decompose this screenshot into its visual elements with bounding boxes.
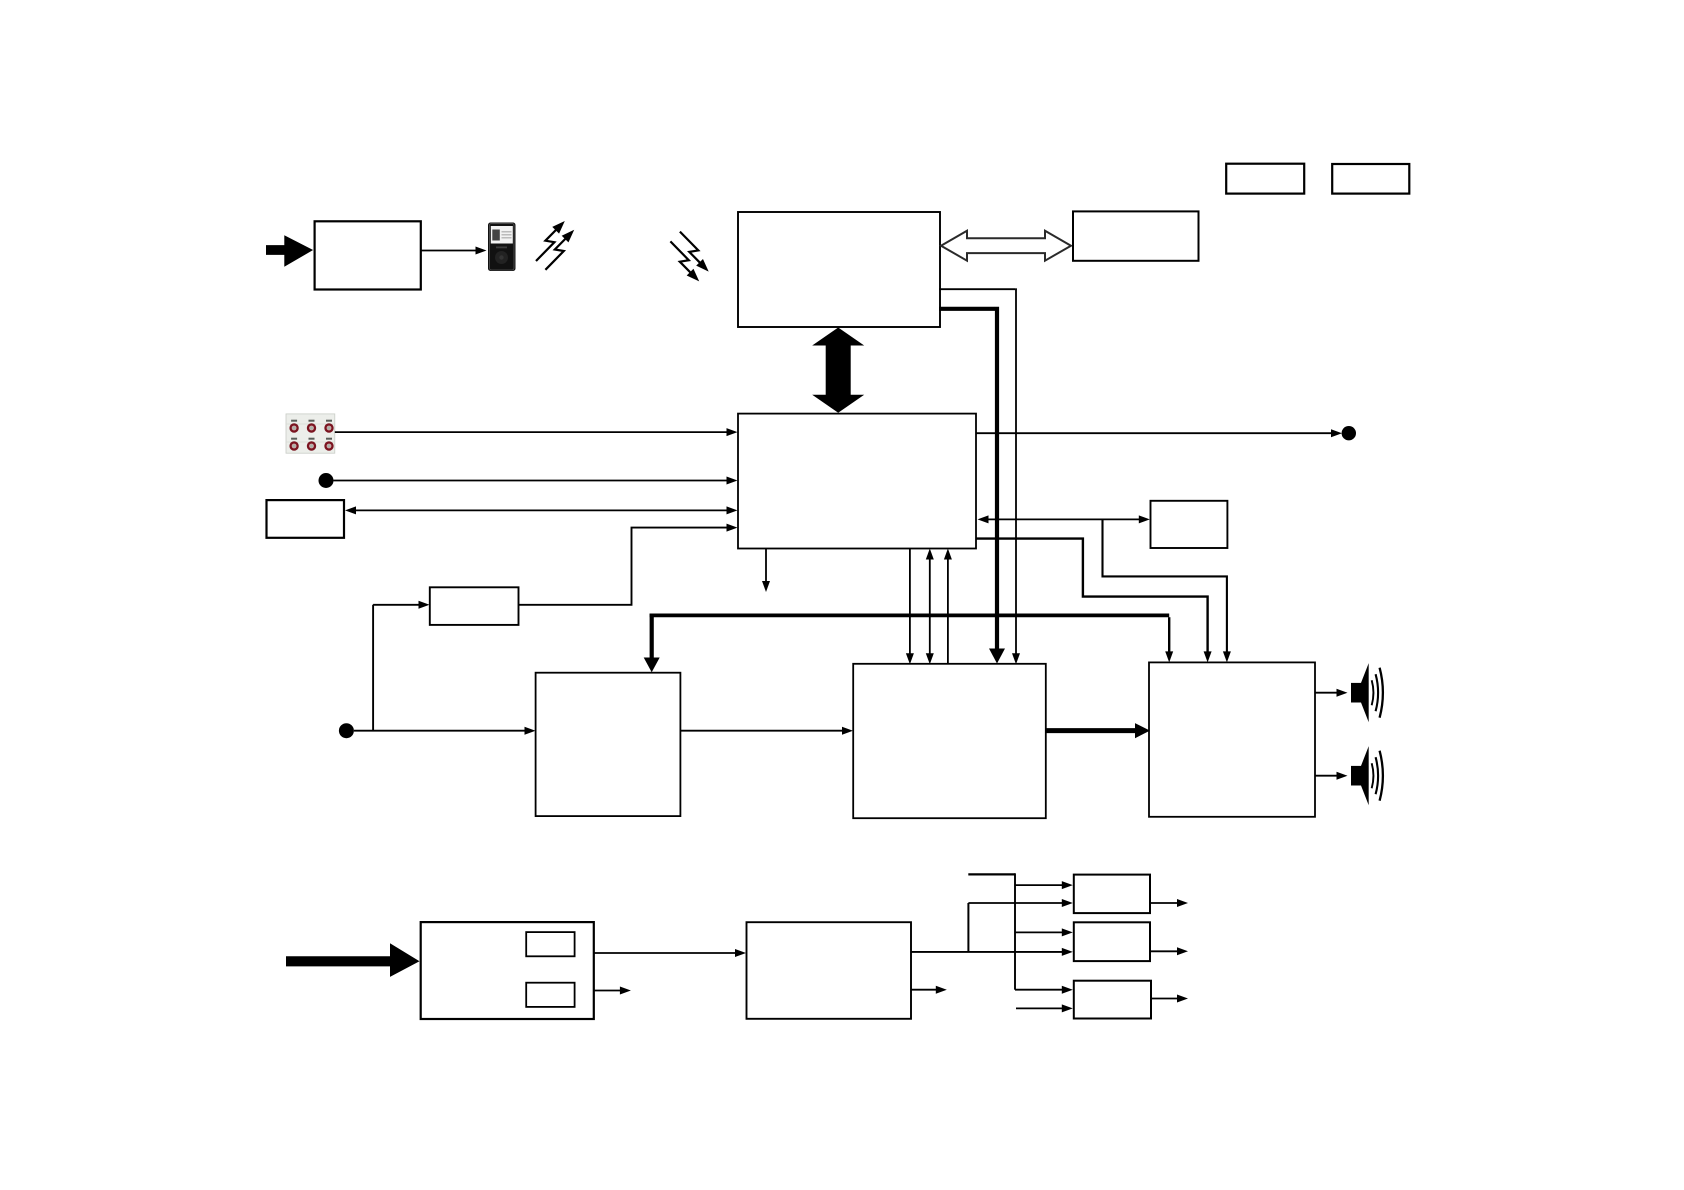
wire: branch up from aux line to pre-amp xyxy=(373,601,429,731)
RF receive lightning bolt 2 xyxy=(670,241,699,281)
wire: receiver data line (thin, right edge down to audio processor) xyxy=(939,288,1020,664)
block: transmitter encoder (top-left, empty) xyxy=(315,221,421,289)
arrow: microcontroller short output stub (down) xyxy=(762,549,770,593)
wire: microcontroller to display (double arrowheads) xyxy=(345,506,738,514)
node: aux audio input (filled dot, bottom left) xyxy=(339,723,354,738)
wire: distribution stub rail (free end) feeding regulators xyxy=(968,873,1015,989)
wire: DSP to audio processor xyxy=(680,727,853,735)
block: audio processor (bottom middle, empty) xyxy=(853,664,1046,818)
wire: rail to block A input xyxy=(1015,881,1073,889)
RF receive lightning bolt 1 xyxy=(680,232,709,272)
block: power supply unit (bottom, empty) xyxy=(421,922,594,1019)
speaker icon: left channel xyxy=(1351,663,1383,722)
open double-headed arrow between receiver and memory block xyxy=(941,231,1071,261)
node: microphone (filled dot, left) xyxy=(319,473,334,488)
wire: power amp to left speaker xyxy=(1315,689,1348,697)
block: regulator output B (empty) xyxy=(1074,922,1150,961)
arrow: block B output xyxy=(1150,947,1188,955)
wire: bidirectional line between MCU and EEPROM xyxy=(978,515,1150,523)
thick bus rail: horizontal distribution line xyxy=(650,614,1170,618)
wire: branch from EEPROM line down to power amplifier xyxy=(1103,519,1231,662)
wire: MCU to audio processor control 1 (down arrow) xyxy=(906,549,914,665)
RF transmit lightning bolt 1 xyxy=(536,221,565,261)
block: PSU inner sub-block 1 (empty) xyxy=(526,932,574,956)
block: voltage regulator (bottom middle, empty) xyxy=(747,922,912,1019)
thick arrow: audio processor to power amplifier xyxy=(1046,723,1150,738)
arrow: regulator output stub xyxy=(911,986,947,994)
block: DSP / sound processor (bottom left, empty) xyxy=(536,673,681,816)
thick mains input arrow xyxy=(286,943,420,977)
wire: microphone to microcontroller xyxy=(334,477,738,485)
arrow: block C output xyxy=(1151,995,1188,1003)
thick wire: receiver audio bus down to audio processor xyxy=(939,307,1005,664)
wire: MCU mute line stepping down to power amplifier xyxy=(977,539,1212,663)
thick vertical double arrow: receiver to main microcontroller xyxy=(812,328,864,413)
block: main microcontroller (center, empty) xyxy=(738,414,976,549)
arrow: block A output xyxy=(1150,899,1188,907)
wire: keypad to microcontroller xyxy=(335,428,738,436)
speaker icon: right channel xyxy=(1351,746,1383,805)
block: small legend box 2 (top right corner) xyxy=(1332,164,1409,194)
block: pre-amplifier (small, empty) xyxy=(430,587,519,625)
block: display (left, empty) xyxy=(267,500,345,538)
wire: microcontroller to power LED (long rail to filled dot) xyxy=(977,429,1343,437)
image: remote handset (MP3 player photo) xyxy=(488,223,516,272)
wire: PSU to regulator block xyxy=(594,949,746,957)
wire: pre-amp up to microcontroller input xyxy=(519,524,738,605)
image: control keypad panel photo xyxy=(286,414,335,453)
block: EEPROM (small right box, empty) xyxy=(1151,501,1228,548)
wire: power amp to right speaker xyxy=(1315,772,1348,780)
block: RF receiver / tuner module (top center, empty) xyxy=(738,212,940,327)
wire: rail to block C input xyxy=(1015,986,1073,994)
wire: rail to block B input xyxy=(1015,928,1073,936)
wire: regulator to rail block B xyxy=(911,948,1073,956)
block: memory (top right of receiver, empty) xyxy=(1073,211,1199,260)
wire: aux input to DSP xyxy=(354,727,536,735)
block: PSU inner sub-block 2 (empty) xyxy=(526,983,574,1007)
block: regulator output A (empty) xyxy=(1074,875,1150,914)
arrow: PSU auxiliary output stub xyxy=(594,987,631,995)
block: small legend box 1 (top right corner) xyxy=(1226,164,1304,194)
thick input arrow into encoder block xyxy=(266,235,313,266)
block: power amplifier (bottom right, empty) xyxy=(1149,662,1315,816)
block: regulator output C (empty) xyxy=(1074,981,1151,1019)
RF transmit lightning bolt 2 xyxy=(545,230,574,270)
wire: branch up from regulator line to rail block A xyxy=(968,899,1072,952)
node: indicator dot (filled circle, right) xyxy=(1342,426,1356,440)
wire: free stub into block C second input xyxy=(1016,1004,1073,1012)
bus rail right arm down into power amplifier xyxy=(1165,617,1173,662)
wire: audio processor to MCU status (up arrow) xyxy=(944,549,952,665)
wire: encoder to remote handset xyxy=(421,247,487,255)
wire: MCU to audio processor control 2 (double arrow) xyxy=(926,549,934,665)
thick bus arrow down into DSP xyxy=(644,614,660,673)
